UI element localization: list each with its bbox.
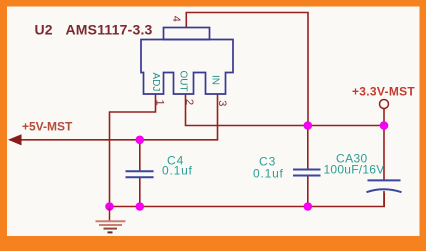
- svg-text:+5V-MST: +5V-MST: [22, 120, 73, 134]
- svg-text:3: 3: [216, 100, 228, 106]
- svg-text:0.1uf: 0.1uf: [253, 166, 284, 180]
- svg-text:0.1uf: 0.1uf: [162, 164, 193, 178]
- svg-text:U2: U2: [35, 22, 53, 38]
- svg-text:OUT: OUT: [178, 71, 189, 92]
- svg-text:ADJ: ADJ: [150, 73, 161, 92]
- svg-text:2: 2: [183, 99, 195, 105]
- svg-text:AMS1117-3.3: AMS1117-3.3: [66, 22, 153, 38]
- svg-text:4: 4: [170, 16, 182, 22]
- svg-text:100uF/16V: 100uF/16V: [324, 162, 385, 176]
- svg-text:1: 1: [153, 100, 165, 106]
- svg-text:+3.3V-MST: +3.3V-MST: [352, 85, 415, 99]
- svg-text:IN: IN: [210, 75, 221, 85]
